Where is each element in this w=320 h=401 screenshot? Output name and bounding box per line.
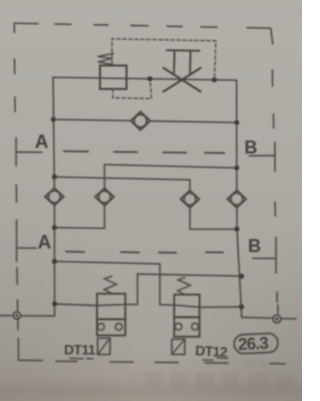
shut-off valve V2 handle (167, 50, 200, 72)
sheet number oval 26.3 (234, 333, 279, 354)
wire: diamond3 bottom stub to left rail (54, 206, 104, 229)
dashed enclosure border top (14, 23, 270, 28)
relief valve V1 body (100, 66, 127, 90)
wire: lower bridge line (left rail to diamond3 top) (54, 177, 190, 191)
pilot line dashed: relief drain loop (113, 80, 152, 99)
port A row2 tick (17, 238, 37, 262)
check valve C5 ball (231, 193, 243, 205)
port A row1 tick (16, 138, 42, 166)
port B row1 tick (249, 142, 275, 171)
svg-text:__,: __, (235, 370, 247, 379)
check valve C3 ball (99, 191, 111, 203)
dashed enclosure border bottom (56, 361, 285, 364)
ghost bleed-through marks (130, 359, 265, 382)
svg-text:DT11: DT11 (64, 342, 96, 358)
check valve C5 diamond (on right rail) (227, 190, 246, 207)
solenoid valve DT11 body lower (97, 319, 125, 335)
svg-text:lti,rtr u'i: lti,rtr u'i (130, 371, 159, 381)
wire: DT11 right port to right rail (125, 274, 241, 304)
check valve C1 ball (134, 115, 147, 128)
port T1 circle (13, 312, 20, 319)
solenoid valve DT11 coil (98, 338, 110, 354)
wire: DT12 right port to right rail (200, 306, 242, 309)
svg-text:26.3: 26.3 (238, 334, 269, 354)
port A row2 dashed gland line (66, 252, 223, 253)
solenoid valve DT12 body upper (174, 295, 199, 318)
svg-text:iD t: iD t (196, 370, 210, 380)
pilot line dashed: top rectangle (112, 39, 216, 79)
ghost bleed-through smudges (reverse page) (146, 372, 294, 389)
port B row2 tick (253, 237, 276, 273)
svg-text:A: A (35, 132, 49, 153)
check valve C4 ball (184, 193, 196, 205)
solenoid valve DT12 spring (178, 277, 191, 294)
wire: left rail to DT12 left port (54, 261, 199, 307)
solenoid valve DT11 body upper (97, 294, 125, 320)
svg-text:B: B (248, 236, 261, 256)
check valve C2 ball (49, 191, 61, 203)
solenoid valve DT11 spring (104, 276, 116, 293)
wire: left rail upper (above check diamond) (53, 77, 54, 188)
dashed enclosure border bottom-left corner (18, 339, 42, 361)
DT12 label underline (203, 358, 228, 360)
svg-text:26.3: 26.3 (244, 359, 265, 371)
dashed enclosure border left (14, 23, 18, 330)
solenoid valve DT12 coil (172, 339, 185, 354)
wire: left rail to DT11 left port (55, 304, 126, 306)
wire: check row 1 line (53, 119, 237, 122)
svg-text:DT12: DT12 (195, 342, 228, 360)
dashed enclosure border right (271, 28, 278, 313)
port T2 line bottom right (242, 317, 296, 319)
wire: diamond4 bottom stub to right rail (190, 208, 237, 229)
shut-off valve V2 X body (164, 68, 201, 92)
wire: upper bridge line (diamond2 top to right rail) (105, 165, 237, 191)
port T2 circle (273, 315, 281, 323)
check valve C1 diamond (131, 112, 151, 131)
check valve C3 diamond (95, 188, 114, 205)
solenoid valve DT12 body lower (174, 317, 199, 337)
wire: right rail lower (237, 207, 242, 317)
check valve C4 diamond (181, 190, 200, 207)
wire: main top line P (53, 77, 237, 80)
solenoid valve DT12 seat circles (175, 323, 182, 330)
svg-text:A: A (38, 233, 52, 254)
relief valve V1 spring (98, 54, 114, 65)
solenoid valve DT11 seat circles (98, 323, 105, 330)
wire: right rail upper (236, 80, 238, 190)
port A row1 dashed gland line (64, 151, 224, 153)
svg-text:B: B (244, 138, 257, 158)
DT11 label underline (70, 357, 93, 359)
check valve C2 diamond (on left rail) (45, 188, 64, 205)
port T1 line bottom left (0, 315, 55, 317)
wire: left rail lower (below check diamond) (53, 205, 55, 316)
